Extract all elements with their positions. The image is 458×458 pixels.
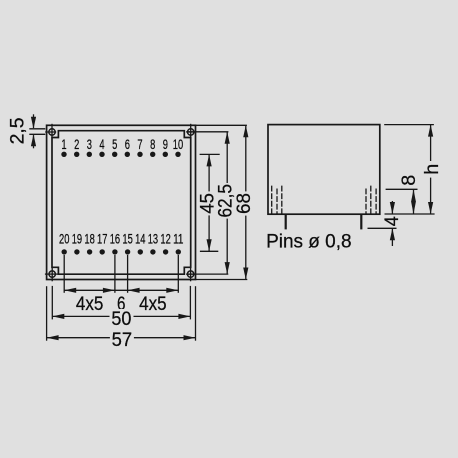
side view body outline bbox=[268, 125, 380, 215]
pin numbers 1-10 bbox=[61, 137, 183, 152]
svg-text:2: 2 bbox=[74, 137, 79, 152]
pin numbers 20-11 bbox=[59, 231, 184, 246]
svg-text:12: 12 bbox=[160, 231, 170, 246]
dimension 45 pin row spacing bbox=[196, 154, 219, 251]
outer flange outline bbox=[47, 125, 196, 279]
dimension 8 pin depth bbox=[386, 175, 421, 214]
svg-text:6: 6 bbox=[125, 137, 130, 152]
svg-text:14: 14 bbox=[135, 231, 146, 246]
svg-text:7: 7 bbox=[137, 137, 142, 152]
mounting hole top-right bbox=[186, 124, 195, 138]
svg-text:5: 5 bbox=[112, 137, 117, 152]
dimension 57 overall width bbox=[47, 286, 196, 351]
svg-text:10: 10 bbox=[173, 137, 183, 152]
mounting hole top-left bbox=[45, 124, 56, 138]
solder pin left bbox=[285, 214, 287, 229]
hidden pins dashed bbox=[272, 186, 376, 215]
svg-text:57: 57 bbox=[112, 329, 133, 351]
svg-text:8: 8 bbox=[150, 137, 155, 152]
svg-text:h: h bbox=[421, 164, 443, 175]
svg-text:4: 4 bbox=[381, 216, 403, 226]
svg-text:3: 3 bbox=[87, 137, 92, 152]
svg-text:18: 18 bbox=[84, 231, 94, 246]
svg-text:2,5: 2,5 bbox=[7, 117, 29, 144]
dimension 68 overall length bbox=[196, 125, 256, 279]
dimension 4 pin length bbox=[368, 201, 403, 246]
svg-text:4x5: 4x5 bbox=[139, 293, 167, 315]
svg-text:8: 8 bbox=[398, 175, 420, 186]
pin pitch extension lines bbox=[64, 255, 178, 293]
solder pin right bbox=[360, 214, 362, 229]
svg-text:68: 68 bbox=[233, 193, 255, 214]
svg-text:16: 16 bbox=[110, 231, 120, 246]
svg-text:20: 20 bbox=[59, 231, 69, 246]
mounting hole bottom-left bbox=[45, 267, 58, 282]
mounting hole bottom-right bbox=[186, 267, 195, 282]
svg-text:1: 1 bbox=[61, 137, 66, 152]
svg-text:50: 50 bbox=[111, 308, 131, 330]
svg-text:15: 15 bbox=[122, 231, 132, 246]
svg-text:Pins ø 0,8: Pins ø 0,8 bbox=[266, 231, 352, 253]
dimension 62,5 hole spacing vertical bbox=[186, 132, 236, 274]
transformer body outline bbox=[52, 131, 191, 275]
bottom pin row pads 20-11 bbox=[61, 249, 181, 254]
svg-text:13: 13 bbox=[148, 231, 158, 246]
top pin row pads 1-10 bbox=[61, 152, 180, 157]
svg-text:4: 4 bbox=[99, 137, 105, 152]
svg-text:9: 9 bbox=[163, 137, 168, 152]
svg-text:4x5: 4x5 bbox=[76, 293, 104, 315]
dimension 4x5 6 4x5 pin pitch bbox=[64, 288, 178, 315]
svg-text:11: 11 bbox=[173, 231, 183, 246]
dimension h overall height bbox=[384, 125, 443, 214]
dimension 50 hole spacing horizontal bbox=[52, 286, 190, 330]
svg-text:17: 17 bbox=[97, 231, 107, 246]
svg-text:19: 19 bbox=[72, 231, 82, 246]
dimension 2,5 hole diameter bbox=[7, 114, 46, 148]
